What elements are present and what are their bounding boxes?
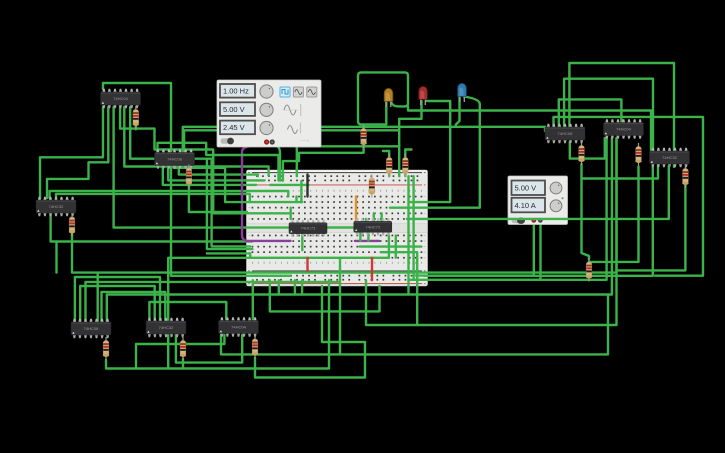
wire xyxy=(270,184,308,186)
resistor R8 xyxy=(635,143,641,166)
resistor R9 xyxy=(682,165,688,188)
resistor R10 xyxy=(360,125,366,148)
wire xyxy=(390,97,480,208)
IC U8 74HC04 xyxy=(604,119,644,138)
wire xyxy=(75,277,160,322)
wire xyxy=(306,175,308,197)
svg-text:74HC32: 74HC32 xyxy=(159,325,174,330)
wire xyxy=(149,302,226,321)
wire xyxy=(179,166,258,176)
wire xyxy=(360,245,421,247)
IC U2 74HC08 xyxy=(155,149,195,168)
wire xyxy=(283,144,364,181)
wire xyxy=(407,166,669,219)
wire xyxy=(184,130,399,152)
wire xyxy=(252,275,291,277)
svg-text:74HC04: 74HC04 xyxy=(231,325,246,330)
wire xyxy=(252,280,254,320)
wire xyxy=(589,167,639,262)
IC U4 74HC08 xyxy=(71,319,111,338)
wire xyxy=(395,235,397,257)
wire xyxy=(168,258,389,369)
wire xyxy=(300,181,302,202)
LED D1 amber xyxy=(384,88,393,107)
wire xyxy=(617,185,686,271)
IC U3 74HC32 xyxy=(36,197,76,216)
wire xyxy=(158,143,279,181)
wire xyxy=(40,107,103,198)
wire xyxy=(120,107,289,213)
wire xyxy=(301,280,303,294)
resistor R1 xyxy=(133,106,139,129)
wire xyxy=(176,335,242,363)
svg-text:5.00 V: 5.00 V xyxy=(223,105,245,114)
wire xyxy=(373,213,375,221)
wire xyxy=(124,107,268,176)
wire xyxy=(297,146,399,176)
resistor R2 xyxy=(186,165,192,188)
wire xyxy=(408,106,651,151)
wire xyxy=(388,235,390,257)
wire xyxy=(409,222,541,280)
svg-text:74HC08: 74HC08 xyxy=(84,326,99,331)
svg-text:74HC73: 74HC73 xyxy=(365,224,380,229)
svg-text:74HC32: 74HC32 xyxy=(49,204,64,209)
IC U10 74HC73 on breadboard xyxy=(289,220,327,237)
wire xyxy=(582,164,590,259)
wire xyxy=(50,191,289,198)
wire xyxy=(381,252,417,325)
wire xyxy=(365,219,367,222)
wire xyxy=(424,166,653,276)
wire xyxy=(106,280,329,368)
wire xyxy=(339,258,341,355)
wire xyxy=(404,174,406,176)
wire xyxy=(405,150,411,158)
wire xyxy=(564,79,653,151)
resistor R7 xyxy=(578,142,584,165)
wire xyxy=(182,359,184,369)
wire xyxy=(270,280,380,311)
breadboard xyxy=(247,170,428,286)
wire xyxy=(409,101,451,202)
resistor R11 xyxy=(386,154,392,177)
power supply xyxy=(508,176,568,225)
resistor R4 xyxy=(103,337,109,360)
wire xyxy=(135,125,137,129)
wire xyxy=(295,197,297,203)
wire xyxy=(130,107,250,247)
wire xyxy=(359,232,361,241)
wire xyxy=(107,138,612,322)
wire xyxy=(290,208,292,219)
svg-text:74HC04: 74HC04 xyxy=(113,96,128,101)
wire xyxy=(383,151,389,157)
wire xyxy=(388,174,390,176)
wire xyxy=(207,159,253,249)
resistor R6 xyxy=(252,336,258,359)
LED D3 blue xyxy=(458,83,467,102)
wire xyxy=(136,335,224,369)
wire xyxy=(364,102,387,129)
wire xyxy=(366,138,617,325)
wire xyxy=(327,226,354,228)
wire xyxy=(407,176,409,294)
resistor R5 xyxy=(180,337,186,360)
svg-text:2.45 V: 2.45 V xyxy=(223,123,245,132)
resistor R14 xyxy=(586,259,592,282)
svg-text:74HC73: 74HC73 xyxy=(301,226,316,231)
wire xyxy=(456,97,460,127)
wire xyxy=(272,143,280,181)
svg-text:74HC08: 74HC08 xyxy=(558,131,573,136)
wire xyxy=(114,107,289,228)
wire xyxy=(96,273,98,322)
wire xyxy=(559,99,622,127)
wire xyxy=(183,127,545,152)
wire xyxy=(51,213,253,242)
svg-text:74HC32: 74HC32 xyxy=(662,155,677,160)
wire xyxy=(80,286,155,322)
resistor R12 xyxy=(402,154,408,177)
svg-text:74HC08: 74HC08 xyxy=(167,157,182,162)
wire xyxy=(221,295,608,355)
wire xyxy=(278,280,280,294)
wire xyxy=(416,222,534,276)
wire xyxy=(168,166,264,180)
svg-text:5.00 V: 5.00 V xyxy=(515,183,537,192)
svg-text:1.00 Hz: 1.00 Hz xyxy=(223,87,249,96)
wire xyxy=(163,166,256,185)
wire xyxy=(380,213,382,221)
svg-text:4.10 A: 4.10 A xyxy=(515,201,536,210)
wire xyxy=(569,63,674,167)
wire xyxy=(207,253,250,257)
wire xyxy=(355,197,357,222)
wire xyxy=(371,258,373,280)
wire xyxy=(582,165,659,179)
wire xyxy=(255,286,365,378)
IC U7 74HC08 xyxy=(545,124,585,143)
LED D2 red xyxy=(419,86,428,105)
op IC U1 74HC04 xyxy=(101,89,141,108)
wire xyxy=(47,107,108,198)
function generator xyxy=(217,80,321,147)
wire xyxy=(570,138,605,159)
wire xyxy=(294,280,296,294)
wire xyxy=(55,242,57,273)
wire xyxy=(554,117,704,276)
IC U6 74HC04 xyxy=(219,317,259,336)
wire xyxy=(415,138,607,280)
svg-text:74HC04: 74HC04 xyxy=(616,127,631,132)
wire xyxy=(103,83,290,276)
wire xyxy=(358,72,408,124)
wire xyxy=(242,143,291,241)
wire xyxy=(174,166,303,202)
wire xyxy=(399,101,421,176)
wire xyxy=(355,240,379,242)
IC U11 74HC73 on breadboard xyxy=(354,218,392,235)
wire xyxy=(72,138,617,273)
wire xyxy=(367,232,369,241)
wire xyxy=(102,292,166,322)
IC U5 74HC32 xyxy=(146,318,186,337)
wire xyxy=(306,258,308,271)
wire xyxy=(189,186,247,213)
wire xyxy=(86,282,341,322)
wire xyxy=(301,233,303,250)
resistor R13 on breadboard xyxy=(369,175,375,198)
resistor R3 xyxy=(69,214,75,237)
svg-text:~~∿: ~~∿ xyxy=(300,138,309,143)
IC U9 74HC32 xyxy=(650,148,690,167)
wire xyxy=(56,194,250,202)
wire xyxy=(412,176,414,280)
